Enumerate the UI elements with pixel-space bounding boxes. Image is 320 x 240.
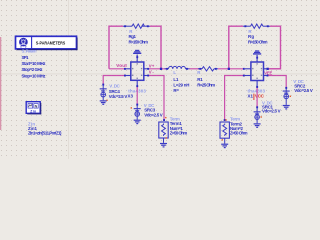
right feedback loop wire	[229, 26, 281, 69]
left feedback loop wire	[109, 26, 161, 69]
Rg labels	[248, 29, 268, 45]
wire SRC4 to X3 lower pin	[103, 76, 126, 85]
ground below SRC3	[134, 120, 141, 125]
S_Param label block	[22, 49, 47, 79]
Zin measurement block	[26, 102, 41, 115]
svg-text:Vout: Vout	[116, 63, 127, 68]
svg-text:N: N	[35, 104, 38, 108]
svg-text:L=29 nH: L=29 nH	[173, 83, 189, 88]
wire X1 emitter to SRC1	[256, 87, 258, 107]
L1 labels	[173, 70, 189, 93]
svg-text:Vdc=2.5 V: Vdc=2.5 V	[262, 109, 281, 114]
Term1	[159, 117, 168, 143]
Term2	[220, 119, 229, 144]
ground below SRC2	[283, 105, 290, 110]
wire V+ : X3 collector to middle network	[149, 68, 167, 70]
junction at loop1 right leg	[160, 68, 162, 70]
wire V- : X3 to Term1	[149, 76, 165, 121]
resistor R1	[198, 67, 218, 71]
ground below SRC4	[100, 100, 107, 105]
svg-text:L1: L1	[173, 77, 179, 82]
wire X1 upper-right to loop2	[268, 68, 280, 70]
svg-text:Vdc=2.5 V: Vdc=2.5 V	[144, 113, 163, 118]
faint major grid line	[68, 0, 69, 159]
svg-text:R=150 Ohm: R=150 Ohm	[248, 39, 268, 44]
wire VEE : X1 lower-right to SRC2	[268, 76, 286, 89]
node VCC label	[254, 94, 265, 100]
transistor X3 labels	[128, 88, 147, 98]
Zin labels	[28, 121, 62, 135]
faint major grid hline	[0, 73, 320, 74]
SRC1 labels	[262, 101, 281, 114]
wire Vout (base of X3)	[109, 68, 126, 70]
svg-text:VCC: VCC	[255, 94, 265, 99]
Term2 labels	[230, 117, 248, 136]
svg-text:Start=10 MHz: Start=10 MHz	[22, 61, 47, 66]
wire X3 emitter to SRC3	[136, 87, 138, 105]
DC source SRC1	[254, 106, 262, 123]
left edge cut-off wire	[0, 37, 1, 130]
transistor X3 (sub-circuit box)	[126, 55, 149, 87]
inductor L1	[165, 66, 190, 68]
wire R1 to X1 base	[218, 68, 244, 70]
svg-text:Vdc=2.5 V: Vdc=2.5 V	[294, 88, 313, 93]
transistor X1 (sub-circuit box)	[245, 55, 268, 87]
S-PARAMETERS gear icon	[19, 38, 28, 48]
DC source SRC4	[100, 84, 108, 101]
SRC4 labels	[109, 84, 128, 100]
svg-text:R=: R=	[173, 88, 179, 93]
DC source SRC3	[131, 104, 141, 120]
SRC3 labels	[144, 103, 163, 118]
SRC2 labels	[293, 79, 313, 93]
svg-text:Rg1: Rg1	[129, 34, 137, 39]
wire L1 to R1	[190, 68, 203, 70]
R1 labels	[197, 70, 215, 88]
junction at loop2 left leg	[228, 68, 230, 70]
svg-text:Z=50 Ohm: Z=50 Ohm	[170, 130, 188, 135]
DC source SRC2	[283, 87, 291, 105]
svg-text:R=25 Ohm: R=25 Ohm	[197, 83, 215, 88]
svg-text:Zin: Zin	[30, 109, 36, 113]
svg-text:V+: V+	[149, 64, 155, 69]
VCC supply arrow above X1	[253, 50, 261, 54]
Rg1 labels	[129, 29, 149, 45]
svg-text:VEE: VEE	[264, 70, 272, 75]
svg-text:V-: V-	[149, 69, 155, 74]
ground below Term2	[221, 144, 228, 149]
svg-text:R1: R1	[197, 77, 203, 82]
svg-text:S_Param: S_Param	[22, 49, 37, 54]
transistor X1 labels	[248, 89, 266, 99]
Term1 labels	[170, 116, 188, 135]
svg-text:Step=10 MHz: Step=10 MHz	[22, 73, 47, 78]
svg-text:L: L	[173, 70, 176, 75]
ground below Term1	[160, 143, 167, 148]
S-PARAMETERS controller box	[16, 36, 78, 50]
svg-text:S-PARAMETERS: S-PARAMETERS	[36, 40, 66, 46]
svg-text:X3: X3	[128, 94, 134, 99]
svg-text:Rg: Rg	[248, 34, 254, 39]
svg-text:Stop=2 GHz: Stop=2 GHz	[22, 67, 44, 72]
svg-text:Vdc=2.5 V: Vdc=2.5 V	[109, 94, 128, 99]
svg-text:Z=50 Ohm: Z=50 Ohm	[230, 131, 248, 136]
wire X1 lower-left to Term2	[225, 76, 245, 121]
svg-text:Zin1=zin(S11,PortZ1): Zin1=zin(S11,PortZ1)	[28, 131, 62, 136]
svg-text:V_DC: V_DC	[109, 84, 120, 89]
svg-text:SP1: SP1	[22, 55, 30, 60]
ground below SRC1	[254, 123, 261, 128]
resistor Rg	[243, 24, 270, 28]
svg-text:X1: X1	[248, 93, 254, 98]
resistor Rg1	[123, 24, 150, 28]
VCC supply arrow above X3	[133, 50, 141, 54]
svg-text:R=150 Ohm: R=150 Ohm	[129, 39, 149, 44]
